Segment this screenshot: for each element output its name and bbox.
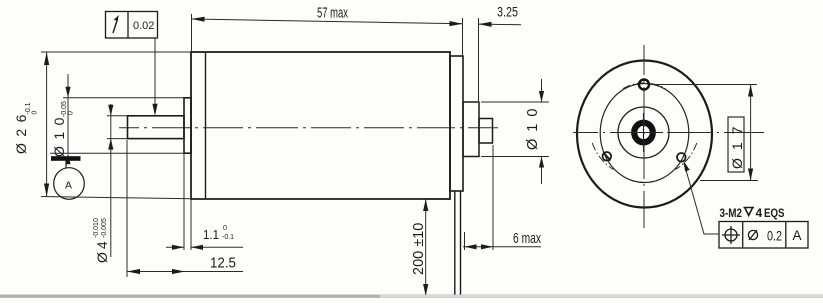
horizontal centerline of side view: [119, 127, 498, 129]
dim 3.25: [479, 23, 522, 26]
scan edge artifact bottom: [0, 295, 823, 298]
position symbol: [722, 226, 740, 244]
front shaft diam 4: [128, 116, 185, 139]
label diam 26 0/-0.1: [13, 102, 39, 154]
dim 6 max: [463, 145, 541, 250]
motor body outline: [191, 52, 450, 199]
rear boss diam 10: [463, 102, 479, 157]
lead wires: [455, 191, 461, 297]
dim diam 4 (shaft): [107, 104, 128, 257]
svg-text:0.02: 0.02: [133, 20, 154, 32]
mounting hole lower-right: [677, 153, 686, 162]
svg-text:-0.1: -0.1: [25, 102, 32, 114]
boxed label diam 17: [728, 117, 744, 172]
svg-text:Ø17: Ø17: [729, 119, 745, 169]
dim diam 26: [41, 52, 426, 199]
dim diam 10 (front pilot): [50, 74, 184, 154]
hub boss circle: [618, 107, 669, 158]
svg-text:1.1: 1.1: [203, 227, 219, 242]
svg-text:-0.05: -0.05: [61, 101, 68, 117]
svg-text:-0.1: -0.1: [222, 234, 234, 241]
svg-text:12.5: 12.5: [210, 256, 236, 272]
front pilot lip (diam 10): [184, 98, 191, 153]
mounting hole lower-left: [603, 152, 612, 161]
svg-text:EQS: EQS: [764, 206, 785, 220]
svg-text:Ø10: Ø10: [525, 102, 541, 150]
datum A bar: [51, 156, 81, 161]
svg-text:0.2: 0.2: [767, 229, 782, 244]
position tolerance frame: [719, 222, 808, 249]
svg-text:0: 0: [32, 111, 39, 115]
svg-text:57 max: 57 max: [317, 5, 348, 22]
datum A circle: [54, 161, 85, 200]
hole centerline arcs (dash-dot): [592, 83, 697, 170]
runout arrow symbol: [113, 19, 118, 33]
dim 1.1 0/-0.1: [166, 153, 243, 250]
svg-text:A: A: [65, 180, 72, 192]
leader to M2 hole: [684, 163, 719, 234]
horizontal centerline: [573, 132, 764, 134]
circular runout feature control frame 0.02: [106, 12, 158, 39]
svg-text:200 ±10: 200 ±10: [411, 223, 427, 275]
svg-text:3.25: 3.25: [497, 4, 518, 20]
svg-text:A: A: [793, 228, 802, 243]
svg-text:0: 0: [223, 225, 227, 232]
svg-text:6 max: 6 max: [513, 231, 542, 247]
outer circle: [577, 61, 712, 208]
dim 200 +-10 (wires): [422, 199, 455, 296]
diameter symbol + 0.2: [748, 230, 757, 240]
svg-text:-0.005: -0.005: [101, 218, 108, 238]
vertical centerline: [643, 45, 645, 228]
label diam 4 -0.005/-0.010: [93, 218, 110, 263]
dim 57 max: [192, 14, 479, 101]
mounting hole top: [639, 80, 649, 90]
dim 12.5: [127, 140, 243, 277]
leader from frame to shaft: [154, 38, 156, 114]
svg-text:-0.010: -0.010: [93, 218, 100, 238]
dim diam 10 (rear boss): [481, 79, 549, 184]
dim diam 17: [650, 85, 758, 181]
front end-cap divider: [205, 52, 207, 199]
bolt circle diam 17: [600, 84, 689, 183]
rear shaft stub: [479, 119, 493, 144]
svg-text:0: 0: [68, 111, 75, 115]
hub crosshair: [625, 113, 663, 152]
label diam 10 0/-0.05: [51, 101, 75, 157]
rear end cap: [450, 56, 463, 191]
svg-text:3-M2: 3-M2: [720, 206, 743, 220]
svg-text:4: 4: [756, 206, 763, 220]
svg-text:Ø4: Ø4: [94, 238, 110, 263]
hub shaft ring (thick): [634, 123, 653, 143]
